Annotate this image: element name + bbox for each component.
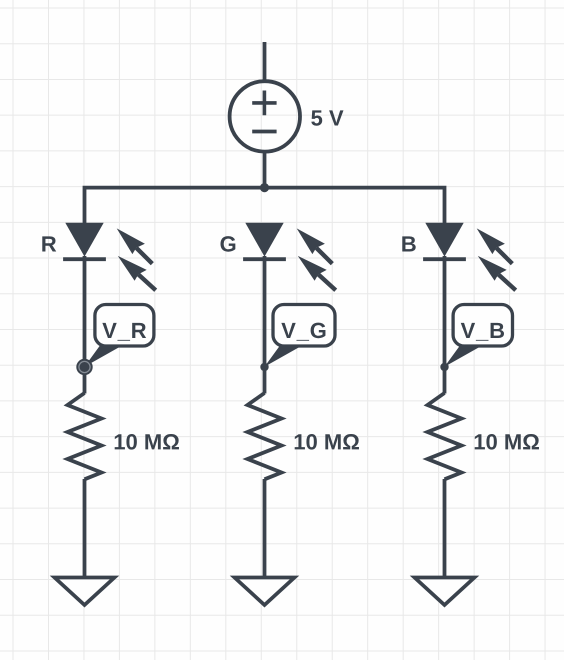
- wire: resistor to ground (G): [263, 479, 267, 578]
- junction dot: [260, 183, 269, 192]
- node flag box V_G: [273, 305, 335, 347]
- photodiode D_B triangle: [425, 223, 463, 257]
- wire: source bottom to bus: [263, 152, 267, 189]
- photodiode D_B cathode bar: [423, 257, 466, 261]
- light arrow 1 into D_R: [136, 248, 152, 264]
- ground symbol (R): [55, 578, 115, 606]
- wire: B branch (cathode-node-resistor): [443, 256, 447, 394]
- photodiode D_G cathode bar: [243, 257, 286, 261]
- light arrow 1 into D_B: [496, 248, 512, 264]
- label R: [42, 236, 56, 251]
- resistor R_B 10 Mohm: [428, 393, 462, 479]
- photodiode D_R cathode bar: [63, 257, 106, 261]
- wire: R branch (cathode-node-resistor): [83, 256, 87, 394]
- wire: top feed above voltage source: [263, 42, 267, 81]
- wire: resistor to ground (B): [443, 479, 447, 578]
- node flag pointer for V_B: [445, 345, 484, 367]
- V1 plus sign: [252, 91, 276, 116]
- photodiode D_G triangle: [245, 223, 283, 257]
- value label 10 Mohm (B): [475, 434, 539, 450]
- node flag box V_B: [453, 305, 512, 347]
- label B: [402, 236, 415, 251]
- photodiode D_R triangle: [65, 223, 103, 257]
- ground symbol (B): [415, 578, 475, 606]
- wire: resistor to ground (R): [83, 479, 87, 578]
- node dot V_B: [440, 363, 448, 371]
- voltage source V1: [230, 81, 300, 151]
- value label 10 Mohm (G): [295, 434, 359, 450]
- ground symbol (G): [235, 578, 295, 606]
- wire: G branch (cathode-node-resistor): [263, 256, 267, 394]
- value label 10 Mohm (R): [115, 434, 179, 450]
- light arrow 2 into D_G: [318, 274, 335, 290]
- label G: [220, 236, 235, 252]
- node dot V_R (ringed): [76, 359, 92, 375]
- node flag text V_G: [281, 323, 325, 341]
- node dot V_G: [260, 363, 268, 371]
- light arrow 2 into D_B: [498, 274, 515, 290]
- V1 minus sign: [252, 130, 276, 134]
- light arrow 1 into D_G: [316, 248, 332, 264]
- node flag pointer for V_G: [265, 345, 304, 367]
- light arrow 2 into D_R: [138, 274, 155, 290]
- node flag text V_B: [461, 323, 504, 341]
- resistor R_G 10 Mohm: [248, 393, 282, 479]
- bus wire: [85, 188, 445, 223]
- value label 5 V: [311, 110, 343, 125]
- node flag pointer for V_R: [85, 345, 124, 367]
- resistor R_R 10 Mohm: [68, 393, 102, 479]
- node flag box V_R: [95, 305, 154, 347]
- node flag text V_R: [102, 323, 146, 341]
